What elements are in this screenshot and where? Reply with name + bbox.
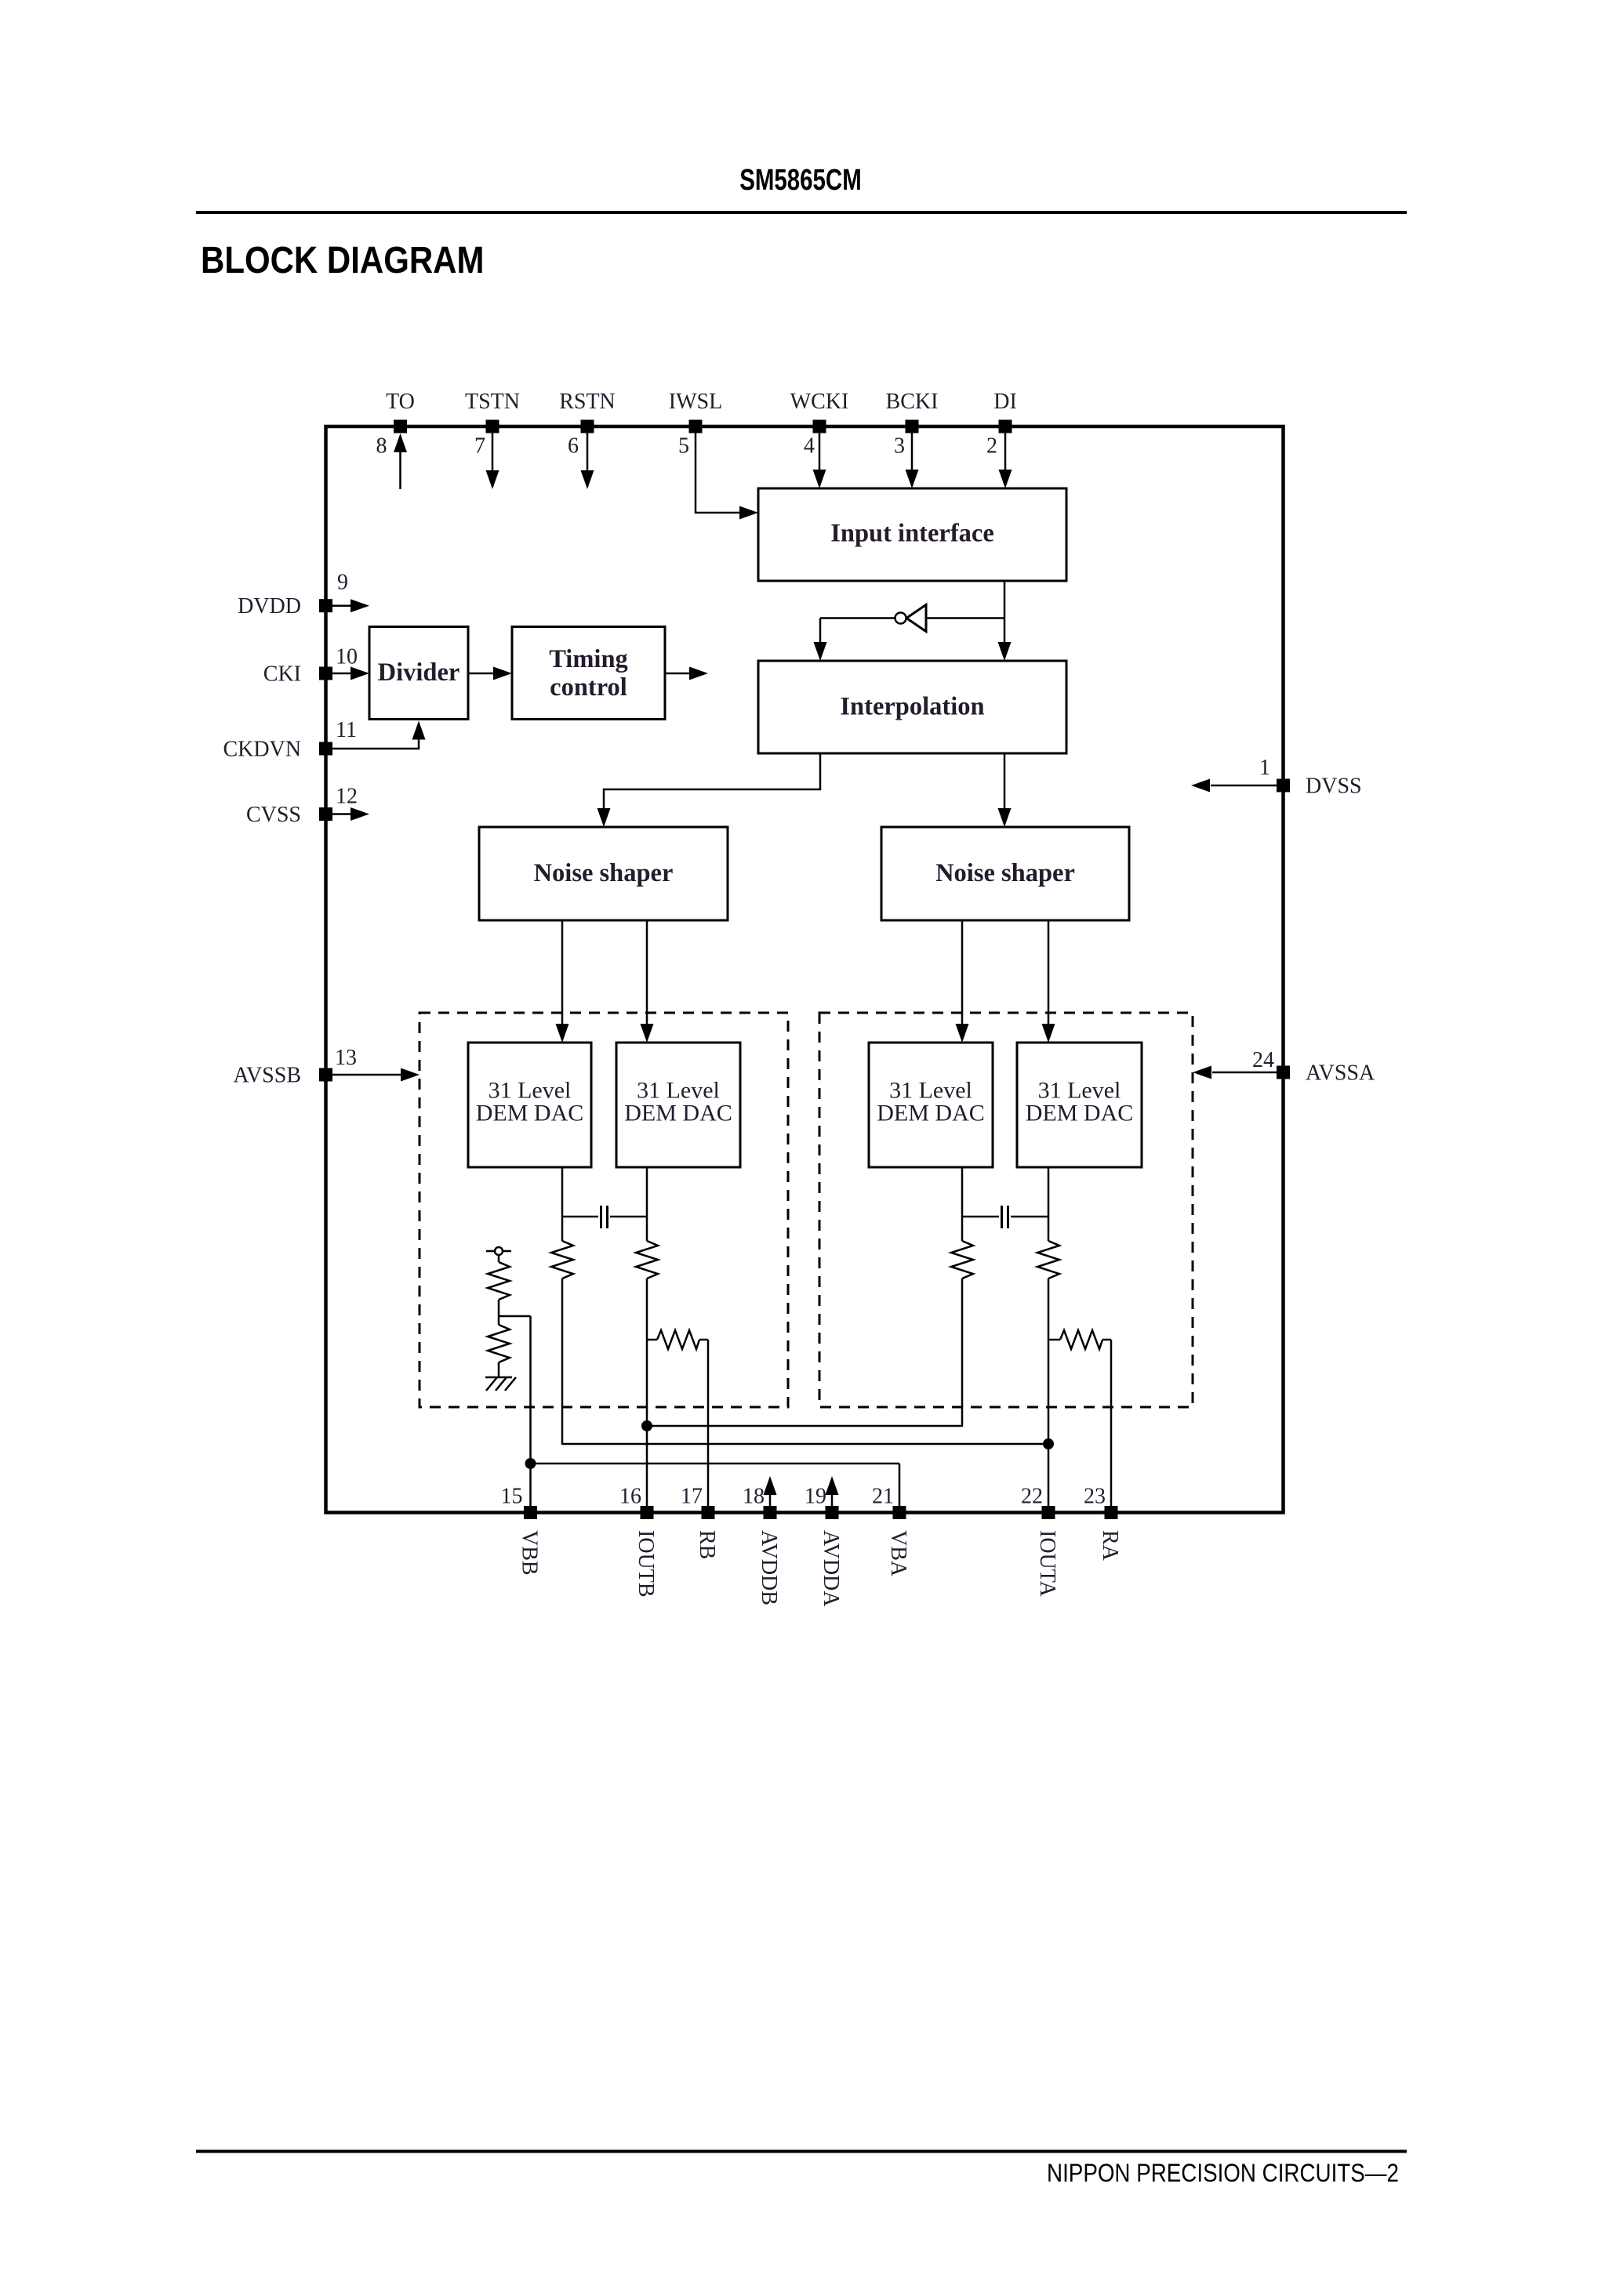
svg-text:AVSSB: AVSSB	[233, 1064, 301, 1088]
pin 1 (DVSS) terminal square	[1277, 779, 1290, 793]
wire DAC B1 output	[561, 1167, 564, 1241]
wire Interpolation to left Noise shaper	[604, 753, 820, 809]
svg-text:IWSL: IWSL	[669, 390, 722, 414]
resistor on DAC A2 output	[1037, 1241, 1059, 1279]
resistor on DAC B2 output	[636, 1241, 658, 1279]
wire reference tap node	[498, 1300, 500, 1325]
pin 3 (BCKI) terminal square	[906, 420, 919, 433]
svg-text:10: 10	[336, 645, 358, 669]
svg-text:CVSS: CVSS	[246, 803, 301, 827]
svg-text:Divider: Divider	[378, 658, 460, 687]
svg-text:Input interface: Input interface	[830, 520, 994, 548]
wire RA to pin 23	[1110, 1340, 1113, 1506]
capacitor C-B between B1/B2 outputs	[562, 1216, 598, 1218]
wire pin 10 into Divider	[332, 673, 353, 675]
svg-text:8: 8	[376, 434, 387, 459]
svg-text:4: 4	[804, 434, 815, 459]
block: Divider	[369, 627, 468, 720]
svg-text:13: 13	[335, 1046, 357, 1070]
pin 7 (TSTN) terminal square	[486, 420, 499, 433]
wire Interpolation to right Noise shaper	[1004, 753, 1006, 809]
junction IOUTA bus	[1043, 1438, 1054, 1449]
DAC group A boundary (dashed)	[819, 1013, 1193, 1407]
pin 16 (IOUTB) terminal square	[641, 1506, 654, 1519]
resistor RA	[1048, 1339, 1060, 1341]
svg-text:23: 23	[1084, 1485, 1106, 1509]
resistor on DAC B1 output	[551, 1241, 573, 1279]
wire DAC B2 resistor to pin 16 IOUTB	[646, 1279, 648, 1506]
net IOUTB crossover bus	[647, 1425, 962, 1427]
pin 11 (CKDVN) terminal square	[319, 742, 332, 756]
pin 13 (AVSSB) terminal square	[319, 1068, 332, 1082]
svg-text:DI: DI	[993, 390, 1017, 414]
inverter U1 (LR clock phase)	[906, 605, 926, 632]
svg-text:Noise shaper: Noise shaper	[935, 859, 1075, 887]
block: 31 Level DEM DAC U2 (B1)	[468, 1043, 591, 1167]
svg-text:12: 12	[336, 785, 358, 809]
svg-text:DVSS: DVSS	[1306, 774, 1362, 799]
wire DAC A1 output	[961, 1167, 964, 1241]
chip outline border	[326, 426, 1284, 1513]
footer rule	[196, 2150, 1407, 2153]
pin 18 (AVDDB) terminal square	[764, 1506, 777, 1519]
pin 4 (WCKI) terminal square	[813, 420, 826, 433]
reference resistor R-ref1	[488, 1262, 510, 1300]
block: Input interface U-IN	[758, 488, 1066, 581]
svg-text:DEM DAC: DEM DAC	[476, 1101, 584, 1126]
header rule	[196, 211, 1407, 214]
svg-text:IOUTA: IOUTA	[1035, 1530, 1059, 1598]
wire left Noise shaper to DEM DAC	[561, 920, 564, 1025]
svg-text:TO: TO	[386, 390, 415, 414]
svg-text:BLOCK DIAGRAM: BLOCK DIAGRAM	[201, 238, 484, 281]
svg-text:15: 15	[501, 1485, 523, 1509]
svg-text:2: 2	[986, 434, 997, 459]
pin 12 (CVSS) terminal square	[319, 807, 332, 821]
svg-text:17: 17	[681, 1485, 703, 1509]
svg-text:6: 6	[568, 434, 579, 459]
wire right Noise shaper to DEM DAC	[961, 920, 964, 1025]
svg-text:VBB: VBB	[518, 1530, 542, 1576]
svg-text:NIPPON PRECISION CIRCUITS—2: NIPPON PRECISION CIRCUITS—2	[1047, 2160, 1399, 2187]
svg-text:RSTN: RSTN	[559, 390, 616, 414]
svg-text:Noise shaper: Noise shaper	[534, 859, 674, 887]
pin 10 (CKI) terminal square	[319, 667, 332, 680]
svg-text:IOUTB: IOUTB	[634, 1530, 658, 1598]
svg-text:16: 16	[619, 1485, 641, 1509]
svg-text:BCKI: BCKI	[886, 390, 939, 414]
svg-text:DEM DAC: DEM DAC	[877, 1101, 985, 1126]
block: Timing control	[512, 627, 665, 720]
wire pin 2 into Input interface	[1004, 433, 1007, 471]
ground symbol	[485, 1377, 512, 1379]
block: 31 Level DEM DAC U3 (B2)	[616, 1043, 740, 1167]
pin 22 (IOUTA) terminal square	[1042, 1506, 1055, 1519]
svg-text:DEM DAC: DEM DAC	[1026, 1101, 1134, 1126]
svg-text:5: 5	[678, 434, 689, 459]
DAC group B boundary (dashed)	[420, 1013, 788, 1407]
wire terminal to reference resistor	[498, 1255, 500, 1262]
wire RB to pin 17	[707, 1340, 710, 1506]
svg-text:3: 3	[894, 434, 905, 459]
wire DAC A1 resistor to IOUTB bus	[961, 1279, 964, 1427]
block: 31 Level DEM DAC U4 (A1)	[869, 1043, 993, 1167]
junction VBB bus	[525, 1458, 536, 1469]
block: Interpolation	[758, 661, 1066, 753]
pin 23 (RA) terminal square	[1105, 1506, 1118, 1519]
wire Timing control output arrow	[665, 673, 690, 675]
svg-text:AVSSA: AVSSA	[1306, 1061, 1375, 1086]
svg-text:9: 9	[337, 571, 348, 595]
block: Noise shaper (right, A channel)	[881, 827, 1129, 920]
pin 9 (DVDD) terminal square	[319, 599, 332, 612]
wire reference resistor to ground	[498, 1362, 500, 1377]
reference resistor R-ref2	[488, 1325, 510, 1362]
svg-text:WCKI: WCKI	[790, 390, 849, 414]
svg-text:AVDDA: AVDDA	[819, 1530, 843, 1607]
wire pin 13 into DAC block B	[332, 1074, 401, 1076]
svg-text:21: 21	[872, 1485, 894, 1509]
wire pin 7 input arrow	[492, 433, 494, 472]
wire DAC B2 output	[646, 1167, 648, 1241]
reference terminal (B group)	[486, 1250, 511, 1253]
wire pin 1 arrow	[1211, 785, 1277, 787]
wire VBA bus to pin 21	[899, 1464, 901, 1506]
capacitor C-A between A1/A2 outputs	[962, 1216, 999, 1218]
pin 21 (VBA) terminal square	[893, 1506, 906, 1519]
svg-text:RB: RB	[695, 1530, 719, 1559]
svg-text:CKI: CKI	[263, 662, 301, 687]
wire pin 5 IWSL into Input interface	[696, 433, 740, 513]
block: Noise shaper (left, B channel)	[479, 827, 728, 920]
svg-text:DEM DAC: DEM DAC	[624, 1101, 732, 1126]
net IOUTA crossover bus	[562, 1443, 1048, 1445]
svg-text:AVDDB: AVDDB	[757, 1530, 781, 1605]
wire DAC A2 output	[1048, 1167, 1050, 1241]
pin 2 (DI) terminal square	[999, 420, 1012, 433]
pin 19 (AVDDA) terminal square	[826, 1506, 839, 1519]
wire pin 18 supply arrow	[769, 1494, 772, 1511]
resistor RB	[647, 1339, 657, 1341]
svg-text:22: 22	[1021, 1485, 1043, 1509]
svg-text:18: 18	[743, 1485, 765, 1509]
wire tap to VBB bus	[529, 1316, 532, 1506]
pin 17 (RB) terminal square	[702, 1506, 715, 1519]
wire pin 19 supply arrow	[831, 1494, 834, 1511]
wire pin 6 input arrow	[587, 433, 589, 472]
block: 31 Level DEM DAC U5 (A2)	[1017, 1043, 1142, 1167]
wire Input interface to inverter node	[1004, 582, 1006, 644]
svg-text:SM5865CM: SM5865CM	[739, 163, 861, 196]
svg-text:RA: RA	[1098, 1530, 1122, 1561]
junction IOUTB bus	[641, 1420, 652, 1431]
svg-text:VBA: VBA	[886, 1530, 910, 1577]
pin 24 (AVSSA) terminal square	[1277, 1066, 1290, 1079]
svg-text:7: 7	[474, 434, 485, 459]
svg-text:19: 19	[805, 1485, 826, 1509]
svg-text:Interpolation: Interpolation	[840, 693, 984, 721]
svg-text:24: 24	[1252, 1048, 1274, 1072]
wire pin 4 into Input interface	[819, 433, 821, 471]
wire pin 24 into DAC block A	[1212, 1072, 1277, 1074]
svg-text:control: control	[550, 673, 627, 702]
wire DAC A2 resistor to pin 22 IOUTA	[1048, 1279, 1050, 1506]
pin 5 (IWSL) terminal square	[689, 420, 703, 433]
pin 6 (RSTN) terminal square	[581, 420, 594, 433]
svg-text:11: 11	[336, 718, 357, 742]
wire pin 3 into Input interface	[911, 433, 914, 471]
svg-text:Timing: Timing	[549, 645, 628, 673]
wire Divider to Timing control	[468, 673, 494, 675]
wire inverter input tee	[926, 617, 1004, 619]
wire inverter output to Interpolation	[820, 617, 895, 619]
resistor on DAC A1 output	[951, 1241, 973, 1279]
wire pin 12 arrow	[332, 813, 353, 815]
wire pin 11 to Divider bottom	[332, 738, 419, 749]
wire right Noise shaper to DEM DAC	[1048, 920, 1050, 1025]
net VBB/VBA bus	[531, 1463, 900, 1465]
wire left Noise shaper to DEM DAC	[646, 920, 648, 1025]
wire DAC B1 resistor to IOUTA bus	[561, 1279, 564, 1445]
svg-text:DVDD: DVDD	[238, 594, 301, 618]
pin 8 (TO) terminal square	[394, 420, 407, 433]
svg-text:CKDVN: CKDVN	[223, 738, 301, 762]
wire pin 8 output arrow	[399, 452, 401, 489]
pin 15 (VBB) terminal square	[524, 1506, 537, 1519]
wire pin 9 arrow	[332, 604, 353, 607]
svg-text:1: 1	[1259, 756, 1270, 780]
svg-text:TSTN: TSTN	[465, 390, 520, 414]
